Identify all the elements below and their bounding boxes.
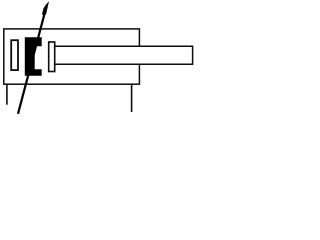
arrowhead [42,1,49,15]
port 1 [6,84,8,104]
cushioning adjustment arrow shaft [18,14,45,114]
port 2 [131,84,133,112]
cushion sleeve right [49,42,55,72]
piston with cushion bosses [25,37,42,75]
cylinder body [4,29,140,84]
cushion sleeve left [11,40,18,70]
piston rod [55,46,193,64]
